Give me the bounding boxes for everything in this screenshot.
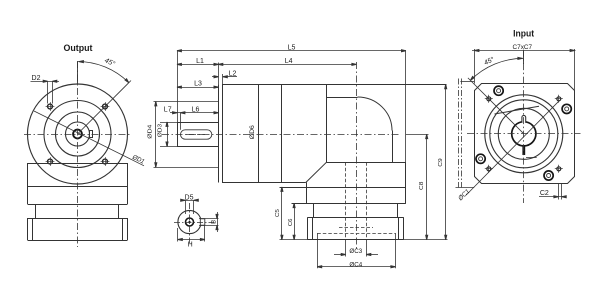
svg-text:D5: D5 [185,194,194,201]
svg-text:L5: L5 [288,44,296,51]
bolt hole top-left [46,102,55,111]
svg-text:ØD3: ØD3 [157,124,163,137]
hub lobe bump [495,106,540,114]
dimension OD4 [154,102,219,168]
mounting hole bottom-right (thick ring) [544,171,553,180]
svg-text:L6: L6 [192,106,200,113]
45 deg ref line vertical [77,62,79,85]
motor phantom line 1 [458,79,460,188]
output centerline horizontal [24,134,131,136]
input flange square with corner cuts [475,84,575,184]
head right face [392,131,394,163]
leader OC1 [466,100,560,195]
bolt hole bottom-right [101,157,110,166]
45 deg dimension arc [78,61,129,82]
section centerline horizontal [174,222,216,224]
centerline ext for C8 [406,134,429,136]
dimension B [199,212,219,232]
45 deg arc input [470,58,523,80]
dimension L3 [177,87,218,89]
leader line OD1 [34,111,144,166]
dimension OC3 [334,240,378,257]
input flange plate [307,217,403,239]
output profile bottom flange [28,218,128,241]
clamp slit bottom (filled) [522,146,525,155]
section circle [178,210,201,233]
plate A left edge [306,183,308,204]
head left face [326,84,328,162]
45 deg radial input [468,78,524,134]
section center hole (thick) [186,218,194,226]
input axis centerline [356,62,358,249]
motor phantom bottom stub [456,187,475,189]
plate A bottom (extends left for C5 ext) [280,187,406,189]
output bore keyway [90,131,93,138]
output pilot boss circle [44,101,111,168]
dimension D5 [181,200,198,214]
hidden spigot line [317,233,395,235]
input centerline vertical [523,50,525,203]
hidden bore line right [366,162,368,239]
bore keyway slot top [522,115,526,122]
section centerline vertical [189,203,191,243]
screw hole 45 top-left [485,95,493,103]
head corner arc [358,97,393,131]
head inner top edge [326,97,357,99]
output shaft side view [177,122,218,147]
hidden bore line left [345,162,347,239]
svg-text:C5: C5 [275,209,281,217]
output profile middle ring [28,204,128,219]
svg-text:L1: L1 [196,58,204,65]
svg-text:ØD6: ØD6 [250,124,256,139]
dimension C2 [539,184,566,200]
input hub circle [498,108,549,159]
svg-text:C8: C8 [419,182,425,190]
input bore (thick) [512,122,536,146]
input centerline horizontal [467,133,581,135]
mounting hole top-right (thick ring) [562,104,571,113]
dimension OC4 [317,233,395,268]
D2 dimension line [31,81,60,103]
keyway center dash [186,134,206,136]
svg-text:L7: L7 [164,106,172,113]
dimension C6 [294,203,296,240]
body bottom edge [222,182,306,184]
output inner circle [56,112,100,156]
svg-text:L4: L4 [285,58,293,65]
bottom ext line left [280,239,308,241]
svg-text:Output: Output [64,43,93,53]
bolt hole top-right [101,102,110,111]
input second circle [490,100,558,168]
output side profile: body rect [28,163,128,205]
dimension C5 [281,187,283,240]
dimension L2 [212,76,218,78]
output shaft bore circle [66,122,90,146]
svg-text:B: B [212,220,218,224]
svg-text:ØC3: ØC3 [349,248,362,255]
bottom ext line right [404,239,448,241]
45 deg radial line [78,81,132,135]
dimension H [178,225,205,241]
dimension C7xC7 [472,49,576,91]
svg-text:Input: Input [513,28,534,38]
output flange outer circle [28,84,128,184]
clamp tick [526,157,537,159]
bolt hole bottom-left [46,157,55,166]
svg-text:D2: D2 [32,75,41,82]
svg-text:C2: C2 [540,190,549,197]
gearbox front face lines [218,84,220,182]
head bottom / plate A top [326,162,406,164]
body section divider 1 [258,84,260,182]
plate A right edge [405,162,407,203]
output center hole (thick) [73,130,82,139]
screw hole 45 bottom-right [555,165,563,173]
hidden small line [339,227,373,229]
svg-text:L3: L3 [194,81,202,88]
dimension OD3 [160,122,177,147]
main axis centerline [162,134,399,136]
level C ring [307,203,403,217]
dimension L6 L7 [170,112,218,114]
body top edge [222,84,447,86]
input pilot circle [485,95,563,173]
svg-text:H: H [188,242,193,249]
svg-text:C7xC7: C7xC7 [513,44,533,51]
body section divider 2 [281,84,283,182]
svg-text:C9: C9 [438,158,444,166]
section keyway [200,219,205,225]
dimension L5 [177,51,406,163]
mounting hole top-left (thick ring) [494,86,503,95]
output centerline vertical [77,61,79,247]
level B bottom (extends left for C6 ext) [292,203,406,205]
svg-text:L2: L2 [229,70,237,77]
dimension C8 [426,134,428,240]
svg-text:ØD4: ØD4 [147,124,153,139]
mounting hole bottom-left (thick ring) [476,154,485,163]
motor phantom line 2 [461,79,463,188]
motor phantom top stub [460,81,474,83]
screw hole 45 top-right [555,95,563,103]
screw hole 45 bottom-left [485,165,493,173]
dimension C9 [445,84,447,239]
face ext line up [218,63,220,85]
chamfer [306,162,327,182]
dimension L1 L4 [177,64,356,66]
svg-text:ØC4: ØC4 [349,261,362,268]
45 deg ref line vertical input [523,51,525,65]
shaft keyway slot [181,130,212,139]
svg-text:C6: C6 [288,219,294,226]
